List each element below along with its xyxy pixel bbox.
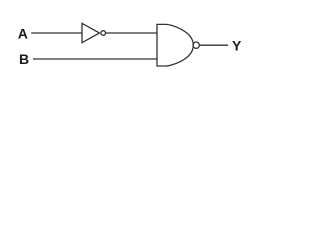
wire NAND to Y xyxy=(199,44,228,46)
inverter bubble xyxy=(101,31,106,36)
wire inverter to NAND input 1 xyxy=(106,32,158,34)
svg-text:Y: Y xyxy=(232,37,242,53)
inverter U1 xyxy=(82,23,100,42)
wire B to NAND input 2 xyxy=(33,58,157,60)
wire A to inverter xyxy=(31,32,82,34)
svg-text:A: A xyxy=(18,25,28,41)
NAND output bubble xyxy=(193,42,199,48)
svg-text:B: B xyxy=(19,51,29,67)
NAND gate U2 xyxy=(157,24,193,66)
